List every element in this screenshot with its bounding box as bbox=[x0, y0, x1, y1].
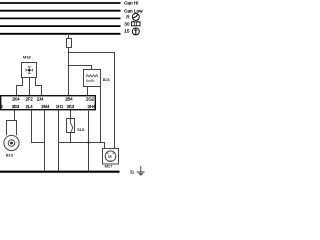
wire pin 2L4 down bbox=[32, 110, 45, 143]
wire pin 3H4 to ground bus bbox=[88, 110, 90, 171]
wire B21 right pin down to rail bbox=[100, 87, 102, 143]
motor M17 box bbox=[103, 149, 119, 165]
wire branch to M17 right pin bbox=[69, 53, 115, 149]
M18 left leg to pin 2K4 bbox=[17, 78, 23, 97]
wire pin 2E3 to S13 bbox=[70, 110, 72, 119]
rail to M17 left pin bbox=[59, 143, 105, 149]
svg-text:2M4: 2M4 bbox=[41, 104, 50, 109]
svg-text:31: 31 bbox=[130, 169, 135, 174]
svg-text:15: 15 bbox=[124, 29, 130, 34]
svg-text:30: 30 bbox=[124, 22, 130, 27]
sensor B10 housing bbox=[7, 121, 17, 136]
wire pin 2M4 to ground bus bbox=[44, 110, 46, 171]
svg-text:B21: B21 bbox=[103, 77, 111, 82]
node junction to B21 branch bbox=[68, 65, 70, 67]
svg-text:M: M bbox=[108, 154, 112, 159]
sensor B21 box bbox=[84, 70, 101, 87]
bus line 15 bbox=[0, 33, 121, 35]
fuse bbox=[67, 39, 72, 48]
sensor B10 body bbox=[4, 135, 19, 150]
svg-text:2B4: 2B4 bbox=[65, 97, 73, 102]
icon battery 30 bbox=[131, 21, 140, 26]
M18 center leg to pin 2F2 bbox=[29, 78, 31, 97]
svg-text:3B3: 3B3 bbox=[12, 104, 20, 109]
svg-text:2G2: 2G2 bbox=[86, 97, 95, 102]
B21 zigzag element bbox=[86, 75, 98, 77]
S13 switch blade bbox=[71, 119, 73, 133]
wire pin 3B3 to B10 bbox=[14, 110, 16, 121]
svg-text:S13: S13 bbox=[77, 127, 85, 132]
wire branch to B21 bbox=[69, 66, 92, 70]
icon key position R bbox=[132, 13, 139, 20]
bus line R bbox=[0, 17, 121, 19]
svg-text:Km/h: Km/h bbox=[86, 79, 94, 83]
ground symbol bbox=[137, 166, 145, 176]
svg-text:Can Low: Can Low bbox=[124, 8, 143, 13]
switch S13 box bbox=[67, 119, 75, 133]
icon ignition 15 bbox=[132, 28, 139, 35]
wire S13 to rail bbox=[70, 133, 72, 143]
bus line 30 bbox=[0, 25, 121, 27]
wire fuse to bar pin 2B4 bbox=[68, 48, 70, 97]
node junction to M17 branch bbox=[68, 52, 70, 54]
bus line Can Hi bbox=[0, 2, 121, 4]
M18 valve symbol bbox=[26, 66, 33, 73]
svg-text:2F2: 2F2 bbox=[26, 97, 34, 102]
ground bus 31 bbox=[0, 171, 120, 173]
svg-text:2K4: 2K4 bbox=[12, 97, 20, 102]
svg-text:Can Hi: Can Hi bbox=[124, 1, 138, 6]
wire fuse feed from bus 15 bbox=[68, 34, 70, 39]
svg-text:M18: M18 bbox=[23, 55, 32, 60]
M18 right leg to pin 2J4 bbox=[36, 78, 42, 97]
svg-text:2E3: 2E3 bbox=[67, 104, 75, 109]
M17 motor symbol bbox=[105, 151, 116, 162]
svg-text:1H1: 1H1 bbox=[56, 104, 64, 109]
svg-text:2J4: 2J4 bbox=[37, 97, 44, 102]
svg-text:M17: M17 bbox=[105, 163, 114, 168]
ECU connector bar bbox=[1, 96, 96, 110]
node junction 3H4/rail bbox=[87, 141, 89, 143]
wire B21 to bar pin 2G2 bbox=[87, 87, 89, 97]
svg-text:3H4: 3H4 bbox=[88, 104, 96, 109]
valve M18 box bbox=[22, 63, 37, 78]
svg-text:2L4: 2L4 bbox=[26, 104, 34, 109]
bus line Can Low bbox=[0, 10, 121, 12]
svg-text:B10: B10 bbox=[6, 153, 14, 158]
wire pin 1H1 to ground bus bbox=[58, 110, 60, 171]
